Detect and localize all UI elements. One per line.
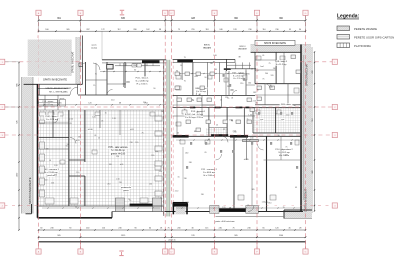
svg-text:45: 45 (288, 228, 290, 230)
svg-text:90: 90 (205, 77, 207, 79)
svg-text:S = 84.30 mp: S = 84.30 mp (111, 150, 125, 152)
svg-text:240: 240 (219, 29, 222, 31)
svg-text:75: 75 (141, 132, 143, 134)
fixtures along left wall (40, 142, 45, 149)
interior partitions in tiled area (52, 110, 54, 138)
svg-text:SPATII INVECINATE: SPATII INVECINATE (28, 177, 32, 204)
hatched neighbour strip left (22, 77, 33, 214)
svg-text:2.10: 2.10 (185, 202, 189, 204)
svg-text:S = 8.4 mp: S = 8.4 mp (185, 117, 196, 119)
svg-text:g.s.: g.s. (260, 119, 264, 121)
svg-text:VANZARE: VANZARE (238, 48, 248, 51)
svg-text:240: 240 (265, 73, 268, 75)
svg-text:230: 230 (247, 228, 250, 230)
svg-text:365: 365 (252, 189, 255, 191)
svg-text:P.XX - depozit 1: P.XX - depozit 1 (191, 110, 206, 113)
svg-text:110: 110 (262, 29, 265, 31)
svg-text:75: 75 (285, 146, 287, 148)
svg-text:120: 120 (270, 75, 273, 77)
svg-text:2.10: 2.10 (116, 179, 120, 181)
counter in room (243, 139, 259, 141)
svg-text:H = 2.55 m: H = 2.55 m (233, 78, 243, 80)
legend swatch platforma (337, 43, 350, 48)
svg-text:P.05 - sala vanzare: P.05 - sala vanzare (108, 146, 128, 149)
svg-text:75: 75 (268, 63, 270, 65)
svg-text:2.10: 2.10 (111, 99, 115, 101)
svg-text:230: 230 (248, 29, 251, 31)
masonry pier top wall dark segment (142, 60, 160, 63)
vestibule label box (39, 84, 77, 95)
bottom thick black bar (219, 208, 249, 211)
svg-text:P.09 - oficiu: P.09 - oficiu (281, 104, 291, 106)
svg-text:110: 110 (102, 228, 105, 230)
svg-text:120: 120 (116, 156, 119, 158)
svg-text:30: 30 (40, 228, 42, 230)
partitions between y107-136 (208, 108, 210, 137)
svg-text:210: 210 (130, 142, 133, 144)
svg-text:120: 120 (275, 228, 278, 230)
svg-text:pardoseala: pardoseala (121, 187, 132, 189)
bottom detail dimension line (39, 229, 306, 231)
red dashed horizontal grid line A (5, 61, 28, 63)
svg-text:287: 287 (86, 29, 89, 31)
bottom wall left block (38, 217, 113, 219)
svg-text:P.02 - birou 2: P.02 - birou 2 (46, 115, 60, 118)
svg-text:95: 95 (289, 29, 291, 31)
svg-text:64: 64 (149, 228, 151, 230)
grid bubbles left (0, 59, 5, 64)
legend swatch perete zidarie (337, 26, 350, 31)
red dashed horizontal grid line C (5, 134, 39, 136)
svg-text:d.05: d.05 (76, 140, 80, 142)
label box SPATII INVECINATE top-right (255, 40, 295, 45)
svg-text:acces: acces (92, 45, 97, 47)
svg-text:130: 130 (250, 137, 253, 139)
svg-text:15: 15 (105, 112, 107, 114)
svg-text:130: 130 (229, 120, 232, 122)
svg-text:NR.1 - NEETAJABIL: NR.1 - NEETAJABIL (49, 91, 69, 94)
svg-text:2.10: 2.10 (233, 130, 237, 132)
svg-text:S = 14.80 mp: S = 14.80 mp (135, 81, 149, 83)
svg-text:90: 90 (153, 88, 155, 90)
svg-text:118: 118 (205, 29, 208, 31)
svg-text:88: 88 (215, 69, 217, 71)
svg-text:I: I (121, 10, 122, 15)
bottom wall right block (165, 211, 303, 213)
top main dimension line (39, 19, 306, 21)
top wall of left block (102, 59, 166, 61)
svg-text:55: 55 (67, 144, 69, 146)
boiler room bottom-left of right block (173, 202, 188, 204)
grid bubbles right (332, 59, 337, 64)
svg-text:1.20: 1.20 (54, 165, 58, 167)
svg-text:130: 130 (133, 65, 136, 67)
svg-text:d.05: d.05 (130, 129, 134, 131)
svg-text:05: 05 (204, 152, 206, 154)
bottom hatch pillars right block (210, 206, 219, 214)
svg-text:05: 05 (262, 55, 264, 57)
svg-text:75: 75 (232, 228, 234, 230)
bottom thick interior wall segments (115, 198, 124, 212)
top secondary dimension line (39, 30, 306, 32)
svg-text:30: 30 (191, 228, 193, 230)
svg-text:365: 365 (253, 92, 256, 94)
interior walls in tiled area (68, 110, 70, 206)
svg-text:115: 115 (205, 228, 208, 230)
left block top band partition walls (38, 94, 167, 96)
svg-text:15: 15 (216, 124, 218, 126)
svg-text:parter +0.00 cota teren: parter +0.00 cota teren (215, 220, 234, 223)
left block outer left wall (37, 84, 39, 218)
svg-text:230: 230 (50, 228, 53, 230)
svg-text:38: 38 (159, 29, 161, 31)
red dashed horizontal grid line B (5, 106, 333, 108)
right block top wall under strip (251, 51, 301, 53)
hatched block bottom-right (284, 210, 312, 219)
svg-text:XX: XX (230, 89, 234, 92)
svg-text:130: 130 (201, 194, 204, 196)
svg-text:15: 15 (160, 198, 162, 200)
svg-text:05: 05 (94, 135, 96, 137)
cells row right of top wall (227, 64, 251, 66)
svg-text:281: 281 (58, 103, 61, 105)
svg-text:PERETE ZIDARIE: PERETE ZIDARIE (354, 27, 377, 31)
svg-text:75: 75 (262, 79, 264, 81)
hatched neighbour strip right (302, 47, 313, 213)
left block top-left wall (24, 83, 83, 85)
svg-text:05: 05 (49, 160, 51, 162)
svg-text:75: 75 (184, 57, 186, 59)
svg-text:P.01 - birou 1: P.01 - birou 1 (136, 77, 150, 80)
svg-text:112: 112 (117, 29, 120, 31)
narrow hatched party strip x76-79 (76, 37, 79, 84)
svg-text:P.14 - depozitare 2: P.14 - depozitare 2 (275, 148, 293, 151)
svg-text:2.10: 2.10 (286, 115, 290, 117)
svg-text:S = 9.6 mp: S = 9.6 mp (196, 91, 207, 93)
svg-text:130: 130 (273, 68, 276, 70)
grid bubbles top (36, 10, 41, 15)
main interior wall y136 right block (173, 135, 301, 137)
svg-text:240: 240 (219, 228, 222, 230)
hatched neighbour block top-left (28, 40, 72, 77)
label band SPATII INVECINATE top-left (39, 76, 73, 82)
svg-text:24.35 m: 24.35 m (168, 240, 176, 242)
svg-text:S = 48.6 mp: S = 48.6 mp (203, 172, 216, 174)
svg-text:210: 210 (119, 182, 122, 184)
svg-text:+0.00: +0.00 (87, 129, 93, 131)
svg-text:SPATII INVECINATE: SPATII INVECINATE (43, 78, 67, 82)
svg-text:2.10: 2.10 (213, 55, 217, 57)
svg-text:1.20: 1.20 (92, 117, 96, 119)
svg-text:BIROU: BIROU (204, 45, 211, 47)
svg-text:15: 15 (177, 176, 179, 178)
svg-text:1.20: 1.20 (122, 83, 126, 85)
tiled rooms right block (253, 107, 300, 133)
svg-text:d.05: d.05 (285, 154, 289, 156)
right block top wall y59.4-62.4 (173, 58, 235, 60)
svg-text:255: 255 (191, 29, 194, 31)
svg-text:55: 55 (275, 114, 277, 116)
svg-text:210: 210 (240, 83, 243, 85)
svg-text:P.11 - vanzare 2: P.11 - vanzare 2 (201, 168, 217, 171)
svg-text:160: 160 (45, 29, 48, 31)
svg-text:130: 130 (248, 83, 251, 85)
dim extension at x102 (101, 31, 103, 60)
svg-text:PLATFORMA: PLATFORMA (354, 44, 371, 48)
small fixtures right block (175, 72, 180, 76)
left vertical dimension line (18, 63, 20, 231)
svg-text:H = 2.55 m: H = 2.55 m (137, 84, 148, 86)
central party wall (167, 60, 170, 217)
fixtures row along top wall (107, 64, 113, 69)
svg-text:05: 05 (231, 98, 233, 100)
svg-text:120: 120 (149, 183, 152, 185)
svg-text:240: 240 (161, 111, 164, 113)
svg-text:2.10: 2.10 (69, 119, 73, 121)
svg-text:30: 30 (278, 135, 280, 137)
svg-text:05: 05 (295, 187, 297, 189)
svg-text:H = 2.80 m: H = 2.80 m (204, 175, 215, 177)
svg-text:P.08 - birou 3: P.08 - birou 3 (275, 61, 288, 63)
svg-text:75: 75 (167, 228, 169, 230)
svg-text:240: 240 (86, 228, 89, 230)
svg-text:15: 15 (220, 100, 222, 102)
svg-text:SPATIU INVECINAT: SPATIU INVECINAT (306, 63, 309, 86)
svg-text:230: 230 (177, 228, 180, 230)
svg-text:1.20: 1.20 (112, 118, 116, 120)
svg-text:210: 210 (54, 175, 57, 177)
svg-text:280: 280 (133, 29, 136, 31)
interior dim row y104.5 (38, 104, 167, 106)
room labels (134, 76, 150, 85)
svg-text:90: 90 (134, 228, 136, 230)
svg-text:210: 210 (107, 184, 110, 186)
svg-text:172: 172 (101, 29, 104, 31)
svg-text:120: 120 (88, 103, 91, 105)
door arcs (93, 63, 100, 70)
svg-text:75: 75 (247, 205, 249, 207)
grid bubbles bottom (36, 249, 41, 254)
svg-text:wc: wc (199, 94, 201, 96)
svg-text:88: 88 (239, 56, 241, 58)
lower right block partitions (233, 136, 235, 211)
svg-text:vecinat: vecinat (91, 46, 97, 49)
svg-text:gresie H=2.80: gresie H=2.80 (111, 152, 126, 155)
svg-text:240: 240 (189, 162, 192, 164)
svg-text:S.P.02 - hol: S.P.02 - hol (185, 114, 196, 116)
svg-text:gs: gs (223, 129, 225, 131)
svg-text:g.s.: g.s. (281, 119, 285, 121)
svg-text:XX: XX (126, 80, 130, 84)
svg-text:240: 240 (46, 148, 49, 150)
svg-text:75: 75 (191, 99, 193, 101)
interior dimension row y71.5 (100, 71, 166, 73)
svg-text:P.03 - vanzare 1: P.03 - vanzare 1 (43, 168, 60, 171)
svg-text:120: 120 (159, 171, 162, 173)
svg-text:G: G (305, 252, 307, 254)
center-right small rooms (173, 95, 255, 97)
svg-text:130: 130 (255, 103, 258, 105)
svg-text:05: 05 (101, 120, 103, 122)
svg-text:1.20: 1.20 (265, 202, 269, 204)
property wall going up at x82.5 (82, 36, 84, 85)
right rooms partitions upper (255, 83, 301, 85)
svg-text:68: 68 (119, 103, 121, 105)
misc small fixtures (40, 112, 46, 116)
svg-text:230: 230 (118, 228, 121, 230)
svg-text:1.20: 1.20 (248, 115, 252, 117)
svg-text:15: 15 (129, 200, 131, 202)
svg-text:120: 120 (109, 164, 112, 166)
strip border lines (21, 77, 23, 214)
svg-text:128: 128 (233, 29, 236, 31)
svg-text:2.10: 2.10 (76, 172, 80, 174)
svg-text:130: 130 (210, 63, 213, 65)
svg-text:28: 28 (299, 228, 301, 230)
svg-text:90: 90 (176, 70, 178, 72)
svg-text:05: 05 (177, 132, 179, 134)
wall along y107.5 right block (173, 107, 301, 109)
svg-text:240: 240 (185, 153, 188, 155)
svg-text:d.05: d.05 (120, 164, 124, 166)
door swing arcs extra (107, 90, 113, 96)
svg-text:30: 30 (299, 29, 301, 31)
bottom main dimension line (39, 241, 306, 243)
svg-text:210: 210 (268, 203, 271, 205)
svg-text:05: 05 (251, 69, 253, 71)
svg-text:120: 120 (155, 151, 158, 153)
svg-text:05: 05 (196, 112, 198, 114)
hatched neighbour strip top-right (251, 45, 312, 53)
svg-text:30: 30 (134, 70, 136, 72)
tiled sales floor left block (39, 110, 164, 207)
svg-text:I: I (121, 251, 122, 256)
svg-text:2.10: 2.10 (175, 191, 179, 193)
svg-text:210: 210 (143, 102, 146, 104)
svg-text:30: 30 (180, 65, 182, 67)
tiled area right boundary wall (163, 60, 165, 216)
door opening top-left wall (70, 94, 78, 96)
svg-text:05: 05 (70, 123, 72, 125)
svg-text:gresie: gresie (123, 190, 129, 192)
interior dim rows with ticks (176, 139, 300, 141)
svg-text:75: 75 (227, 98, 229, 100)
svg-text:130: 130 (184, 178, 187, 180)
svg-text:P.01 - intrare: P.01 - intrare (43, 100, 54, 103)
svg-text:SPATII INVECINATE: SPATII INVECINATE (264, 42, 286, 45)
svg-text:88: 88 (194, 131, 196, 133)
svg-text:d.05: d.05 (194, 76, 198, 78)
svg-text:VANZARI: VANZARI (203, 46, 212, 49)
svg-text:S = 12.4 mp: S = 12.4 mp (46, 119, 59, 121)
svg-text:wc: wc (213, 61, 215, 63)
svg-text:G: G (305, 13, 307, 15)
right vertical dimension line (314, 52, 316, 211)
red dashed horizontal grid line D (5, 205, 39, 207)
svg-text:S = 11.2 mp: S = 11.2 mp (276, 64, 288, 66)
svg-text:S = 28.4 mp: S = 28.4 mp (233, 75, 243, 77)
svg-text:120: 120 (151, 155, 154, 157)
svg-text:65: 65 (262, 228, 264, 230)
svg-text:18: 18 (160, 228, 162, 230)
right block right wall (300, 45, 302, 212)
svg-text:90: 90 (69, 228, 71, 230)
wc fixtures dark dots (223, 74, 225, 77)
svg-text:120: 120 (51, 183, 54, 185)
svg-text:15: 15 (283, 207, 285, 209)
svg-text:120: 120 (135, 142, 138, 144)
strip bottom end L-wall (31, 204, 33, 214)
svg-text:305: 305 (66, 29, 69, 31)
svg-text:15: 15 (98, 138, 100, 140)
small entry boxes below (39, 100, 58, 107)
svg-text:75: 75 (178, 29, 180, 31)
svg-text:1.20: 1.20 (246, 74, 250, 76)
svg-text:30: 30 (184, 109, 186, 111)
svg-text:15: 15 (93, 85, 95, 87)
red dashed vertical grid lines (37, 16, 40, 39)
svg-text:75: 75 (184, 81, 186, 83)
right block extra partitions (245, 136, 247, 160)
svg-text:230: 230 (275, 29, 278, 31)
svg-text:162: 162 (146, 29, 149, 31)
bottom totals dimension line (39, 236, 306, 238)
central wall inner red dashes (162, 60, 164, 216)
extra partitions left block top band (95, 63, 97, 95)
legend swatch perete usor gips-carton (337, 35, 350, 40)
fixture column near central wall (155, 116, 162, 121)
svg-text:PERETE USOR GIPS-CARTON: PERETE USOR GIPS-CARTON (354, 35, 394, 39)
